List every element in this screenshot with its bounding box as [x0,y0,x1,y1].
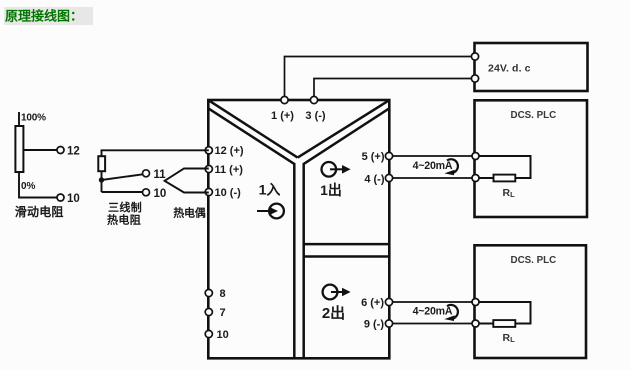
terminal 12 [205,147,212,154]
svg-text:24V. d. c: 24V. d. c [488,63,531,75]
wire output1 plus 5 to DCS1 [389,155,475,157]
terminal 1 [281,96,288,103]
load loop wire DCS2 [476,302,531,324]
DCS PLC box 1 [475,100,588,217]
4-20mA arrow 2 [447,305,458,319]
RTD terminal 10 [143,189,150,196]
svg-text:10 (-): 10 (-) [215,187,242,199]
svg-text:原理接线图：: 原理接线图： [5,9,83,24]
title highlight [4,7,93,25]
svg-text:12 (+): 12 (+) [215,145,244,157]
divider lower-right diagonal and right vertical [304,109,389,358]
slide-wire resistor body [15,126,23,172]
DCS PLC box 2 [475,245,587,358]
wire output1 minus 4 to DCS1 [389,177,475,179]
wire output2 plus 6 to DCS2 [389,301,475,303]
wire terminal 1 to 24V supply [285,57,475,98]
svg-text:12: 12 [67,146,80,158]
thermocouple symbol [165,169,209,193]
wire output2 minus 9 to DCS2 [389,323,475,325]
terminal 4 [385,174,392,181]
svg-text:DCS. PLC: DCS. PLC [511,255,557,266]
RTD terminal 11 [143,170,150,177]
svg-text:热电偶: 热电偶 [173,206,206,220]
svg-text:1 (+): 1 (+) [271,110,294,122]
divider lower-left diagonal and left vertical [209,109,294,358]
slide-wire terminal 10 [57,194,64,201]
slide-wire resistor top lead [18,112,20,126]
isolator module U1 outline [208,100,389,358]
svg-text:3 (-): 3 (-) [305,110,326,122]
svg-text:5 (+): 5 (+) [362,151,385,163]
terminal 10 lower [205,330,212,337]
svg-text:11 (+): 11 (+) [215,164,244,176]
RTD wire junction to terminal 10 [102,191,143,193]
slide-wire terminal 12 [57,147,64,154]
resistor RL 2 [493,320,515,327]
svg-text:10: 10 [67,193,80,205]
24V dc power supply box [475,43,588,91]
svg-text:4~20mA: 4~20mA [413,160,453,172]
resistor RL 1 [494,175,516,182]
terminal 24V minus [471,75,478,82]
terminal 24V plus [471,53,478,60]
svg-text:4 (-): 4 (-) [364,173,385,185]
4-20mA arrow 1 [447,159,458,173]
RTD wire to terminal 12 [102,150,209,156]
RTD junction dot [99,177,104,182]
RTD bottom lead [101,171,103,192]
divider upper-right diagonal [298,101,389,158]
svg-text:100%: 100% [21,113,46,124]
terminal 3 [310,96,317,103]
terminal DCS2 minus [472,320,479,327]
svg-text:1入: 1入 [259,182,281,198]
svg-text:8: 8 [220,288,226,300]
svg-text:6 (+): 6 (+) [361,297,384,309]
wire terminal 3 to 24V supply [314,79,474,98]
divider between output 1 and output 2 upper line [304,243,389,246]
terminal 9 [385,320,392,327]
svg-text:7: 7 [220,307,226,319]
input symbol arrow 1入 [269,204,284,219]
svg-text:滑动电阻: 滑动电阻 [15,204,64,219]
RTD resistor body [98,156,105,171]
divider between output 1 and output 2 lower line [304,255,389,258]
wire DCS2 lower to RL [476,323,494,325]
svg-text:热电阻: 热电阻 [107,213,141,227]
load loop wire DCS1 [476,156,531,178]
svg-text:10: 10 [217,329,229,341]
output symbol arrow 2出 [323,285,338,300]
slide-wire resistor wiper wire to terminal 12 [23,149,57,151]
svg-text:1出: 1出 [320,182,342,198]
svg-text:2出: 2出 [322,304,345,322]
svg-text:DCS. PLC: DCS. PLC [511,110,557,121]
divider upper-left diagonal [209,101,298,158]
terminal 7 [205,308,212,315]
wire DCS1 lower to RL [476,177,494,179]
output symbol arrow 1出 [322,162,337,177]
terminal 10 [205,188,212,195]
svg-text:9 (-): 9 (-) [364,319,385,331]
svg-text:10: 10 [154,188,167,200]
terminal 11 [205,165,212,172]
RTD wire junction to terminal 11 [102,174,143,180]
terminal 5 [385,152,392,159]
terminal 6 [385,298,392,305]
svg-text:11: 11 [154,169,167,181]
terminal DCS1 minus [472,175,479,182]
terminal 8 [205,289,212,296]
svg-text:三线制: 三线制 [108,200,142,214]
svg-text:4~20mA: 4~20mA [413,306,453,318]
terminal DCS1 plus [472,153,479,160]
slide-wire resistor bottom lead [19,172,57,198]
terminal DCS2 plus [472,299,479,306]
svg-text:0%: 0% [21,181,36,192]
